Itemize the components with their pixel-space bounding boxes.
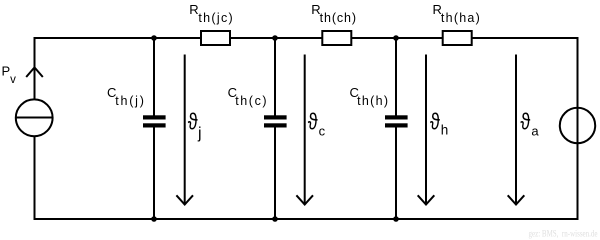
svg-text:h: h (441, 123, 449, 138)
capacitor C_th(j) (143, 38, 166, 219)
wire: top rail from R_th(ha) to right corner (472, 37, 578, 39)
wire: left branch below current source (34, 136, 36, 219)
svg-text:ϑ: ϑ (520, 110, 531, 136)
wire: right branch through voltage source (577, 38, 579, 219)
svg-text:R: R (189, 2, 198, 17)
resistor R_th(jc) (201, 31, 230, 45)
capacitor C_th(h) (385, 38, 408, 219)
arrow: temperature ϑ_h (down) (418, 55, 435, 205)
node: junction dot top at C_th(j) (151, 35, 157, 41)
svg-text:j: j (197, 125, 202, 142)
svg-text:gez: BMS, rn-wissen.de: gez: BMS, rn-wissen.de (529, 230, 598, 240)
svg-text:ϑ: ϑ (430, 110, 441, 136)
svg-text:ϑ: ϑ (188, 110, 199, 136)
node: junction dot bottom at C_th(c) (272, 216, 278, 222)
arrow: temperature ϑ_c (down) (296, 55, 313, 205)
resistor R_th(ch) (322, 31, 351, 45)
svg-text:c: c (319, 124, 326, 139)
svg-text:th(c): th(c) (235, 94, 268, 108)
svg-text:th(jc): th(jc) (198, 11, 234, 25)
wire: top rail from left corner to R_th(jc) (35, 37, 202, 39)
svg-text:ϑ: ϑ (308, 110, 319, 136)
svg-text:th(h): th(h) (357, 94, 389, 108)
svg-text:Pv: Pv (2, 64, 17, 86)
svg-text:th(ha): th(ha) (441, 11, 481, 25)
node: junction dot bottom at C_th(j) (151, 216, 157, 222)
wire: bottom rail (35, 218, 578, 220)
arrow: current direction of P_v (up) (26, 67, 43, 77)
wire: top rail between R_th(ch) and R_th(ha) (352, 37, 443, 39)
label ϑ_j (188, 110, 199, 136)
node: junction dot top at C_th(c) (272, 35, 278, 41)
arrow: temperature ϑ_a (down) (508, 55, 525, 205)
label ϑ_h (430, 110, 441, 136)
label ϑ_a (520, 110, 531, 136)
arrow: temperature ϑ_j (down) (176, 55, 193, 205)
svg-text:a: a (531, 124, 539, 139)
capacitor C_th(c) (264, 38, 287, 219)
svg-text:th(ch): th(ch) (320, 11, 357, 25)
label ϑ_c (308, 110, 319, 136)
wire: left branch above current source (34, 38, 36, 100)
node: junction dot bottom at C_th(h) (393, 216, 399, 222)
current source U1 (P_v power injection) (16, 99, 53, 136)
wire: top rail between R_th(jc) and R_th(ch) (230, 37, 322, 39)
voltage source U2 (ambient temperature ϑ_a source) (560, 108, 595, 143)
svg-text:th(j): th(j) (115, 94, 146, 108)
node: junction dot top at C_th(h) (393, 35, 399, 41)
resistor R_th(ha) (443, 31, 472, 45)
